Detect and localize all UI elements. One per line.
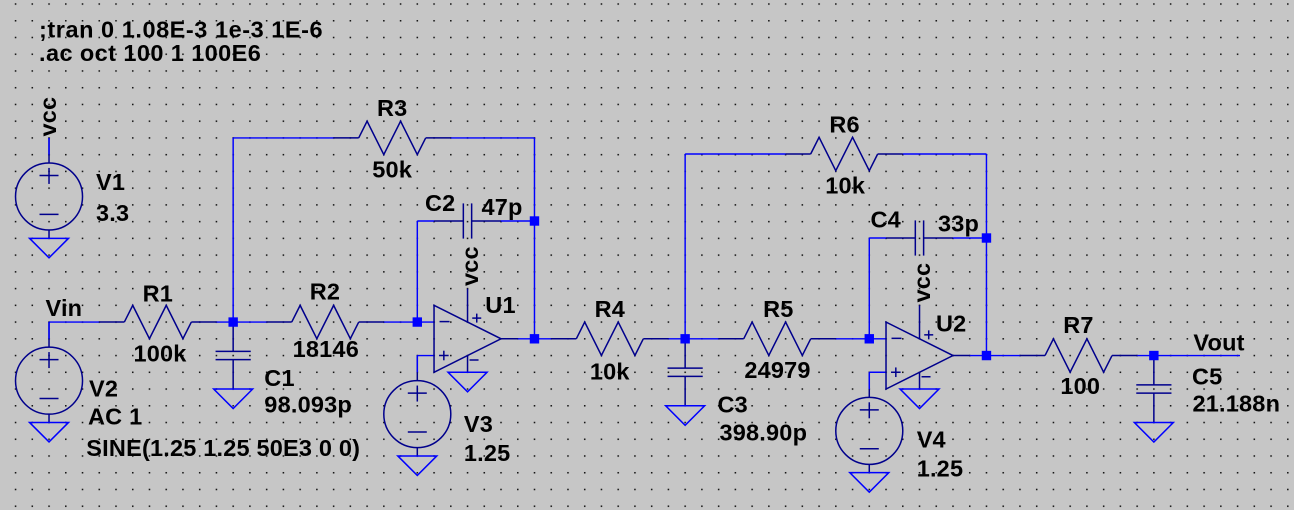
svg-text:V2: V2 xyxy=(89,376,118,402)
svg-text:U2: U2 xyxy=(936,311,966,337)
svg-text:50k: 50k xyxy=(372,157,413,183)
svg-text:33p: 33p xyxy=(938,211,979,237)
svg-text:R3: R3 xyxy=(377,95,407,121)
svg-text:R4: R4 xyxy=(595,296,625,322)
svg-text:1.25: 1.25 xyxy=(917,455,964,481)
svg-text:21.188n: 21.188n xyxy=(1193,391,1281,417)
svg-text:24979: 24979 xyxy=(744,357,810,383)
svg-text:U1: U1 xyxy=(485,292,515,318)
svg-text:C5: C5 xyxy=(1192,364,1222,390)
svg-text:10k: 10k xyxy=(825,173,866,199)
svg-text:100k: 100k xyxy=(133,341,187,367)
svg-text:100: 100 xyxy=(1060,373,1100,399)
svg-text:V4: V4 xyxy=(917,427,946,453)
svg-text:R7: R7 xyxy=(1063,312,1093,338)
svg-text:.ac oct 100 1 100E6: .ac oct 100 1 100E6 xyxy=(39,40,261,66)
svg-text:vcc: vcc xyxy=(909,263,935,303)
svg-text:R2: R2 xyxy=(310,278,340,304)
svg-text:V3: V3 xyxy=(464,411,493,437)
svg-text:C3: C3 xyxy=(718,392,748,418)
svg-text:R6: R6 xyxy=(829,111,859,137)
svg-text:C1: C1 xyxy=(264,365,294,391)
svg-text:C2: C2 xyxy=(425,190,455,216)
svg-text:1.25: 1.25 xyxy=(464,440,511,466)
svg-text:18146: 18146 xyxy=(293,336,359,362)
svg-text:;tran 0 1.08E-3 1e-3 1E-6: ;tran 0 1.08E-3 1e-3 1E-6 xyxy=(39,17,323,43)
svg-text:R5: R5 xyxy=(763,296,793,322)
svg-text:47p: 47p xyxy=(482,194,523,220)
svg-text:398.90p: 398.90p xyxy=(720,420,808,446)
svg-text:SINE(1.25 1.25 50E3 0 0): SINE(1.25 1.25 50E3 0 0) xyxy=(86,435,360,461)
svg-text:AC 1: AC 1 xyxy=(88,403,142,429)
svg-text:3.3: 3.3 xyxy=(96,200,129,226)
svg-text:C4: C4 xyxy=(871,207,901,233)
svg-text:10k: 10k xyxy=(590,359,631,385)
svg-text:Vout: Vout xyxy=(1193,329,1244,355)
svg-text:98.093p: 98.093p xyxy=(264,392,352,418)
svg-text:Vin: Vin xyxy=(46,295,83,321)
svg-text:vcc: vcc xyxy=(457,246,483,286)
svg-text:vcc: vcc xyxy=(35,97,61,137)
svg-text:R1: R1 xyxy=(143,281,173,307)
svg-text:V1: V1 xyxy=(96,169,125,195)
